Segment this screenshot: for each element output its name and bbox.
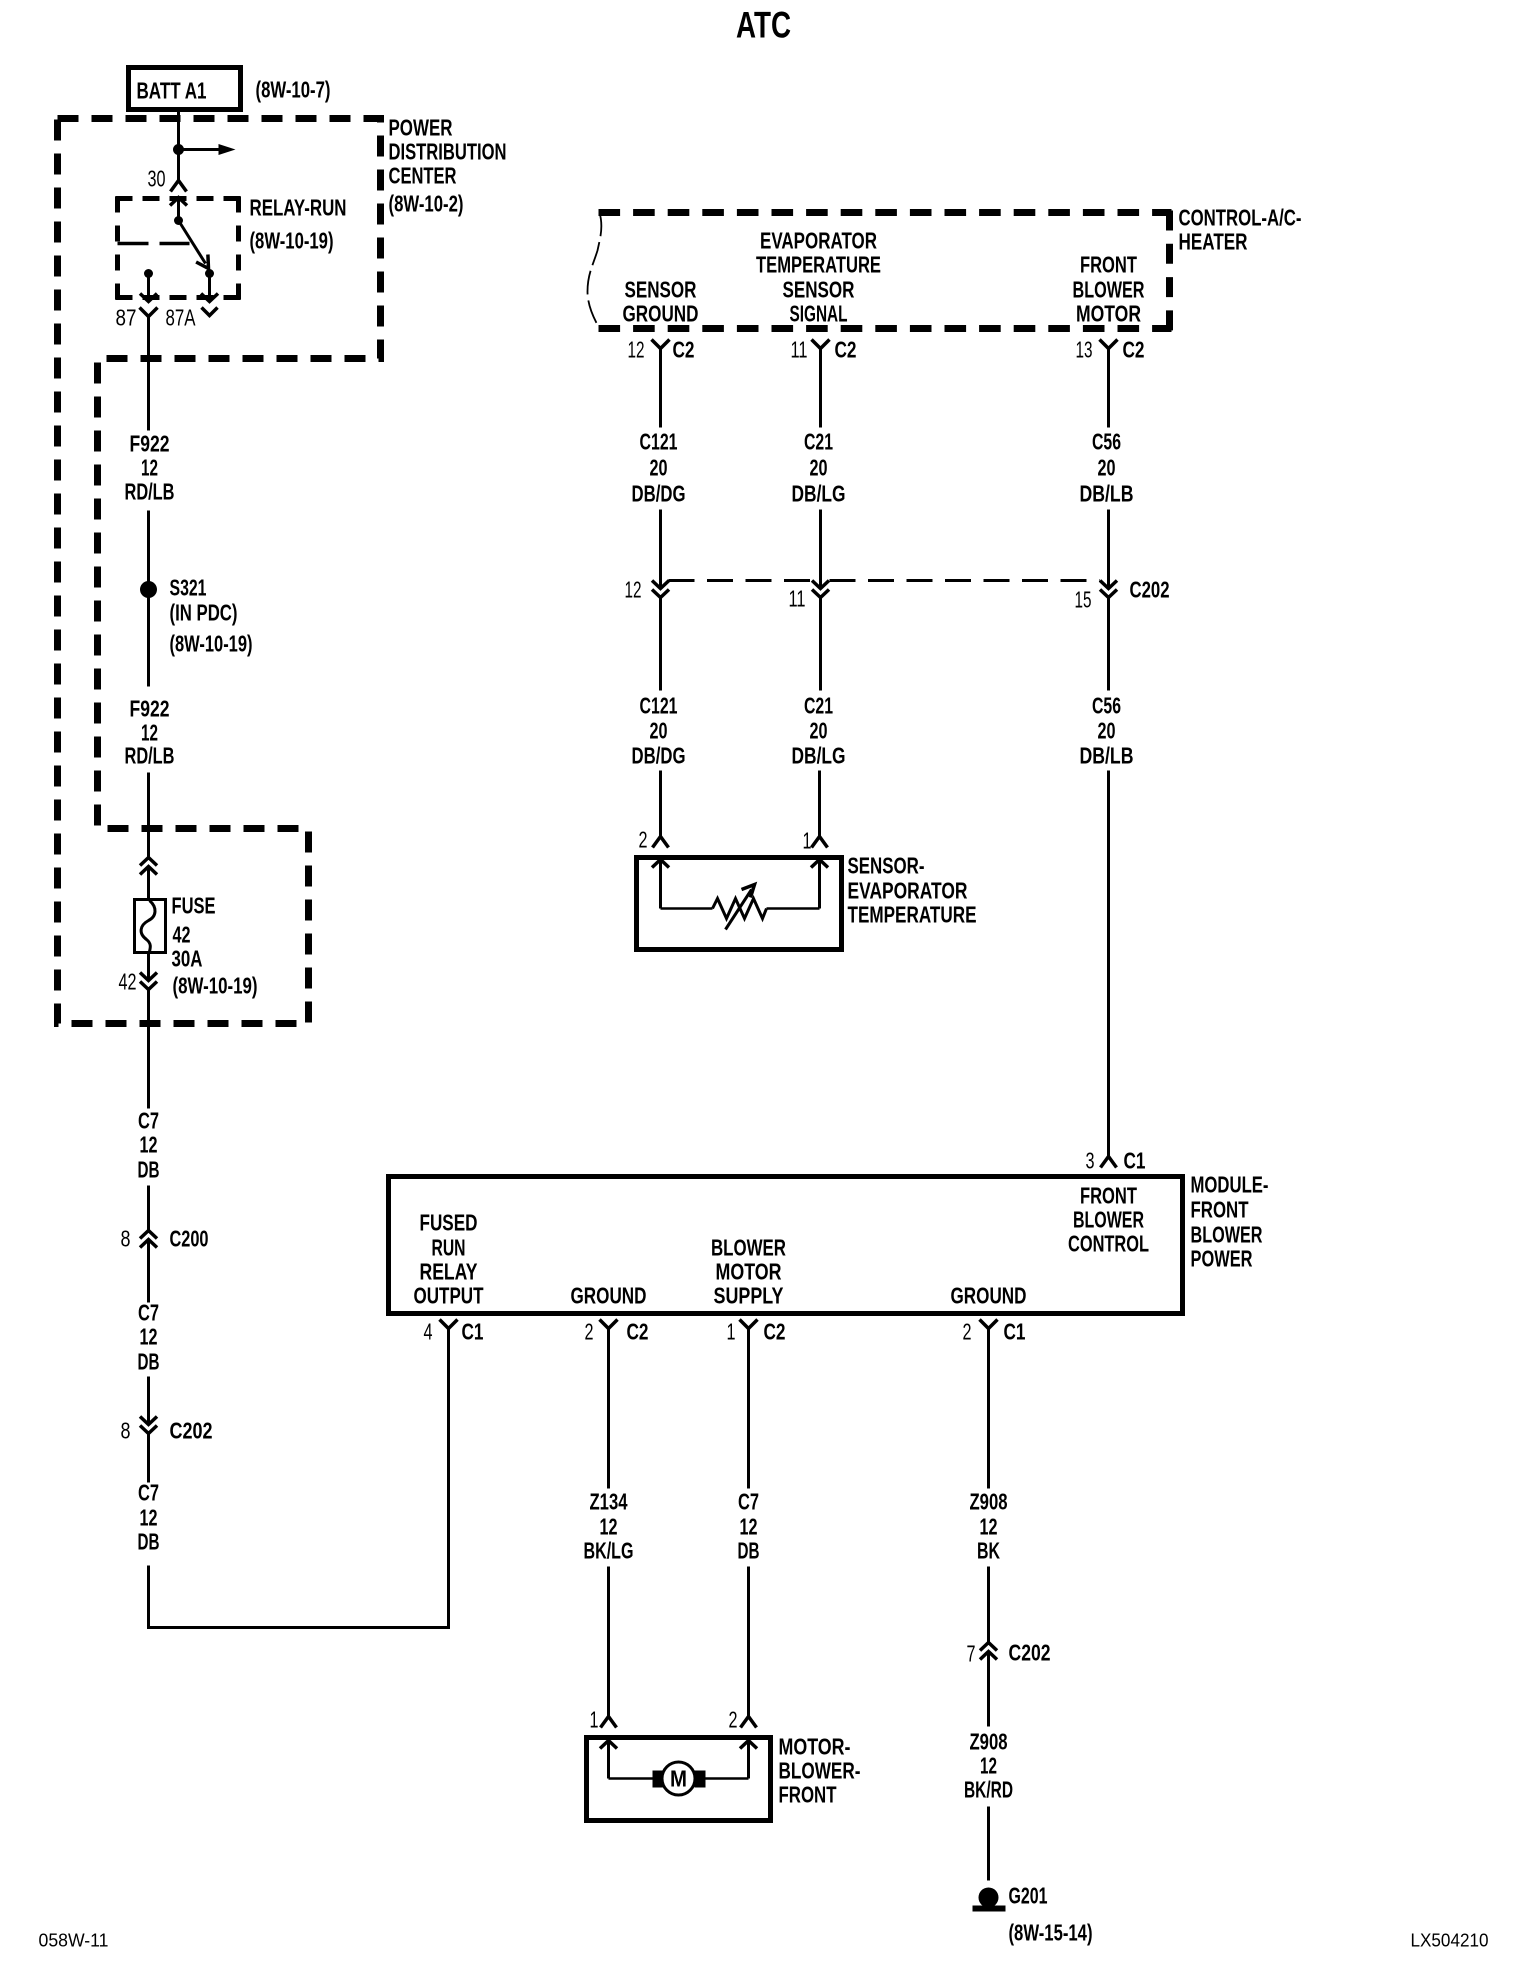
label SENSOR-EVAPORATOR TEMPERATURE: [848, 853, 977, 928]
svg-text:RD/LB: RD/LB: [125, 479, 175, 505]
label RELAY-RUN (8W-10-19): [250, 195, 347, 254]
relay RELAY-RUN: [116, 197, 241, 300]
svg-text:(8W-10-7): (8W-10-7): [256, 77, 331, 103]
svg-text:BK: BK: [977, 1538, 1000, 1564]
svg-text:DISTRIBUTION: DISTRIBUTION: [389, 139, 507, 165]
svg-text:C121: C121: [640, 429, 678, 455]
svg-text:SENSOR: SENSOR: [625, 277, 697, 303]
connector C200 pin 8: [121, 1226, 209, 1252]
svg-text:POWER: POWER: [1191, 1246, 1253, 1272]
svg-text:C1: C1: [1004, 1319, 1026, 1345]
connector C202 pin 11: [789, 581, 830, 612]
motor-blower-front M1: [587, 1738, 771, 1821]
sensor pin 2: [639, 827, 669, 853]
wire from fuse: [147, 953, 150, 981]
svg-text:C1: C1: [462, 1319, 484, 1345]
svg-text:S321: S321: [170, 575, 207, 601]
connector C202 pin 15: [1075, 577, 1170, 613]
module pin 1 C2: [727, 1319, 786, 1345]
svg-text:C1: C1: [1124, 1148, 1146, 1174]
svg-text:EVAPORATOR: EVAPORATOR: [848, 878, 968, 904]
svg-text:1: 1: [590, 1707, 599, 1733]
svg-text:30: 30: [148, 166, 166, 192]
wire C7 12 DB to motor: [738, 1339, 760, 1713]
relay movable arm to 87A: [179, 221, 209, 269]
motor pin 2: [729, 1707, 757, 1733]
svg-text:C202: C202: [1130, 577, 1170, 603]
svg-text:15: 15: [1075, 587, 1092, 613]
svg-text:11: 11: [789, 586, 806, 612]
svg-text:Z908: Z908: [970, 1489, 1008, 1515]
svg-text:20: 20: [810, 455, 828, 481]
wire F922 12 RD/LB upper segment: [125, 327, 175, 505]
svg-text:DB: DB: [138, 1157, 160, 1183]
svg-text:12: 12: [740, 1514, 758, 1540]
svg-text:C2: C2: [627, 1319, 649, 1345]
fuse FUSE 42 30A: [135, 893, 258, 999]
svg-text:87: 87: [116, 305, 137, 331]
svg-text:DB: DB: [138, 1349, 160, 1375]
svg-text:058W-11: 058W-11: [39, 1931, 109, 1951]
svg-text:CENTER: CENTER: [389, 163, 457, 189]
relay pin 30 input arrow: [177, 198, 180, 221]
svg-text:20: 20: [650, 455, 668, 481]
svg-text:(8W-10-19): (8W-10-19): [250, 228, 334, 254]
svg-text:1: 1: [727, 1319, 736, 1345]
label MODULE-FRONT BLOWER POWER: [1191, 1172, 1269, 1272]
svg-text:11: 11: [791, 337, 808, 363]
svg-text:RELAY: RELAY: [420, 1259, 478, 1285]
svg-text:12: 12: [141, 455, 158, 481]
svg-text:C7: C7: [138, 1480, 159, 1506]
connector C202 pin 8: [121, 1417, 213, 1444]
svg-text:12: 12: [140, 1132, 158, 1158]
svg-text:20: 20: [1098, 455, 1116, 481]
wire Z908 12 BK/RD: [964, 1652, 1013, 1881]
svg-text:20: 20: [1098, 718, 1116, 744]
wire C56 20 DB/LB segment 2: [1080, 599, 1134, 1153]
svg-text:OUTPUT: OUTPUT: [414, 1283, 484, 1309]
svg-text:EVAPORATOR: EVAPORATOR: [760, 228, 877, 254]
svg-text:30A: 30A: [172, 946, 203, 972]
svg-text:F922: F922: [130, 696, 170, 722]
svg-text:SENSOR-: SENSOR-: [848, 853, 925, 879]
svg-text:12: 12: [625, 577, 642, 603]
label POWER DISTRIBUTION CENTER (8W-10-2): [389, 115, 507, 217]
pin 30: [148, 166, 187, 192]
svg-text:20: 20: [650, 718, 668, 744]
svg-text:RUN: RUN: [432, 1235, 466, 1261]
svg-text:ATC: ATC: [736, 5, 791, 46]
svg-text:12: 12: [980, 1753, 997, 1779]
svg-text:SIGNAL: SIGNAL: [790, 301, 848, 327]
svg-text:DB/DG: DB/DG: [632, 481, 686, 507]
svg-text:C2: C2: [764, 1319, 786, 1345]
module pin 4 C1: [424, 1319, 484, 1345]
svg-text:SUPPLY: SUPPLY: [714, 1283, 784, 1309]
svg-text:2: 2: [729, 1707, 738, 1733]
svg-text:Z134: Z134: [590, 1489, 628, 1515]
wire C21 20 DB/LG segment 2: [792, 599, 846, 833]
svg-text:BLOWER: BLOWER: [1073, 277, 1145, 303]
svg-text:7: 7: [967, 1641, 976, 1667]
svg-text:DB/LB: DB/LB: [1080, 743, 1134, 769]
relay output arrow 87A: [208, 274, 211, 302]
wire C21 20 DB/LG segment 1: [792, 359, 846, 588]
svg-text:12: 12: [600, 1514, 618, 1540]
arrow feed to other circuits: [179, 144, 236, 155]
label FUSED RUN RELAY OUTPUT: [414, 1210, 484, 1309]
sensor pin 1: [803, 828, 828, 854]
wire C56 20 DB/LB segment 1: [1080, 359, 1134, 588]
pin 87: [116, 305, 158, 331]
svg-text:C2: C2: [673, 337, 695, 363]
wire Z134 12 BK/LG: [584, 1339, 634, 1713]
svg-text:M: M: [670, 1766, 687, 1792]
svg-text:(8W-10-19): (8W-10-19): [170, 631, 253, 657]
svg-text:RELAY-RUN: RELAY-RUN: [250, 195, 347, 221]
wire C7 12 DB segment 2: [138, 1240, 160, 1425]
svg-text:1: 1: [803, 828, 812, 854]
svg-text:MODULE-: MODULE-: [1191, 1172, 1269, 1198]
svg-text:C121: C121: [640, 693, 678, 719]
svg-text:C7: C7: [138, 1300, 159, 1326]
svg-text:2: 2: [639, 827, 648, 853]
svg-text:42: 42: [119, 969, 137, 995]
svg-text:CONTROL: CONTROL: [1068, 1231, 1149, 1257]
svg-text:LX504210: LX504210: [1411, 1931, 1489, 1951]
svg-text:DB: DB: [738, 1538, 760, 1564]
svg-text:Z908: Z908: [970, 1729, 1008, 1755]
svg-text:SENSOR: SENSOR: [783, 277, 855, 303]
battery feed BATT A1: [129, 68, 241, 110]
svg-text:FRONT: FRONT: [779, 1782, 837, 1808]
control-A/C-heater enclosure: [588, 211, 1172, 331]
svg-text:CONTROL-A/C-: CONTROL-A/C-: [1179, 205, 1302, 231]
svg-text:BLOWER: BLOWER: [1073, 1207, 1144, 1233]
svg-text:2: 2: [585, 1319, 594, 1345]
svg-text:(8W-10-19): (8W-10-19): [173, 973, 258, 999]
svg-text:12: 12: [628, 337, 645, 363]
sensor-evaporator temperature R1: [637, 858, 842, 950]
module pin 3 C1: [1086, 1148, 1146, 1174]
wire C121 20 DB/DG segment 1: [632, 359, 686, 588]
svg-text:2: 2: [963, 1319, 972, 1345]
svg-text:DB/LB: DB/LB: [1080, 481, 1134, 507]
svg-text:MOTOR: MOTOR: [1076, 301, 1141, 327]
svg-text:(8W-10-2): (8W-10-2): [389, 191, 464, 217]
svg-text:12: 12: [140, 1324, 158, 1350]
svg-text:BLOWER-: BLOWER-: [779, 1758, 861, 1784]
svg-text:FRONT: FRONT: [1080, 252, 1137, 278]
label EVAPORATOR TEMPERATURE SENSOR SIGNAL: [756, 228, 881, 327]
svg-text:GROUND: GROUND: [951, 1283, 1027, 1309]
svg-text:BLOWER: BLOWER: [711, 1235, 786, 1261]
label FRONT BLOWER MOTOR: [1073, 252, 1145, 327]
module front blower power U1: [389, 1177, 1183, 1314]
svg-text:DB/DG: DB/DG: [632, 743, 686, 769]
pin 12 C2: [628, 337, 695, 363]
svg-text:C2: C2: [835, 337, 857, 363]
svg-text:(8W-15-14): (8W-15-14): [1009, 1920, 1093, 1946]
label MOTOR-BLOWER-FRONT: [779, 1734, 861, 1808]
splice S321: [140, 511, 253, 687]
relay contact dot 87: [144, 269, 153, 278]
junction dot: [173, 144, 184, 155]
svg-text:C56: C56: [1092, 429, 1121, 455]
wire F922 12 RD/LB lower segment: [125, 696, 175, 858]
svg-text:MOTOR-: MOTOR-: [779, 1734, 851, 1760]
wire C7 12 DB segment 1: [138, 990, 160, 1231]
svg-text:(IN PDC): (IN PDC): [170, 600, 238, 626]
svg-text:13: 13: [1076, 337, 1093, 363]
power distribution center enclosure: [58, 119, 381, 1024]
module pin 2 C1: [963, 1319, 1026, 1345]
svg-text:RD/LB: RD/LB: [125, 743, 175, 769]
svg-text:HEATER: HEATER: [1179, 229, 1248, 255]
svg-text:8: 8: [121, 1418, 131, 1444]
svg-text:POWER: POWER: [389, 115, 453, 141]
fuse input connector: [140, 858, 157, 866]
svg-text:C202: C202: [170, 1418, 213, 1444]
svg-text:FUSE: FUSE: [172, 893, 216, 919]
svg-text:C21: C21: [804, 693, 833, 719]
svg-text:F922: F922: [130, 431, 170, 457]
svg-text:12: 12: [140, 1505, 158, 1531]
relay output arrow 87: [147, 274, 150, 302]
svg-text:BATT A1: BATT A1: [137, 78, 207, 104]
svg-text:87A: 87A: [166, 305, 196, 331]
label BLOWER MOTOR SUPPLY: [711, 1235, 786, 1309]
svg-text:C21: C21: [804, 429, 833, 455]
motor pin 1: [590, 1707, 617, 1733]
svg-text:GROUND: GROUND: [571, 1283, 647, 1309]
wire C121 20 DB/DG segment 2: [632, 599, 686, 833]
svg-text:8: 8: [121, 1226, 131, 1252]
svg-text:C7: C7: [738, 1489, 759, 1515]
svg-text:FRONT: FRONT: [1080, 1183, 1137, 1209]
svg-text:3: 3: [1086, 1148, 1095, 1174]
module pin 2 C2: [585, 1319, 649, 1345]
pin 42 connector: [119, 969, 158, 995]
wire BATT A1 to relay pin 30: [177, 110, 180, 177]
svg-text:20: 20: [810, 718, 828, 744]
svg-text:BK/LG: BK/LG: [584, 1538, 634, 1564]
svg-text:4: 4: [424, 1319, 433, 1345]
svg-text:TEMPERATURE: TEMPERATURE: [848, 902, 977, 928]
svg-text:BLOWER: BLOWER: [1191, 1222, 1263, 1248]
label SENSOR GROUND: [623, 277, 699, 327]
pin 87A: [166, 305, 218, 331]
connector C202 pin 7: [967, 1640, 1051, 1667]
label FRONT BLOWER CONTROL: [1068, 1183, 1149, 1257]
svg-text:G201: G201: [1009, 1883, 1048, 1909]
svg-text:C202: C202: [1009, 1640, 1051, 1666]
svg-text:BK/RD: BK/RD: [964, 1777, 1013, 1803]
ground G201: [973, 1883, 1093, 1946]
connector C202 dashed line: [669, 579, 1100, 582]
svg-text:FUSED: FUSED: [420, 1210, 478, 1236]
svg-text:12: 12: [980, 1514, 998, 1540]
svg-text:42: 42: [173, 922, 191, 948]
label CONTROL-A/C-HEATER: [1179, 205, 1302, 255]
pin 11 C2: [791, 337, 857, 363]
svg-text:DB: DB: [138, 1529, 160, 1555]
pin 13 C2: [1076, 337, 1145, 363]
svg-text:C2: C2: [1123, 337, 1145, 363]
svg-text:FRONT: FRONT: [1191, 1197, 1249, 1223]
svg-text:DB/LG: DB/LG: [792, 481, 846, 507]
svg-text:C56: C56: [1092, 693, 1121, 719]
svg-text:C7: C7: [138, 1108, 159, 1134]
svg-text:C200: C200: [170, 1226, 209, 1252]
svg-text:MOTOR: MOTOR: [716, 1259, 782, 1285]
svg-text:TEMPERATURE: TEMPERATURE: [756, 252, 881, 278]
relay fixed contact dashed: [118, 242, 190, 246]
wire into fuse: [147, 867, 150, 901]
wire C7 12 DB segment 3 to module pin 4: [138, 1339, 449, 1628]
svg-text:GROUND: GROUND: [623, 301, 699, 327]
relay contact dot 87A: [205, 269, 214, 278]
svg-text:DB/LG: DB/LG: [792, 743, 846, 769]
relay armature pivot dot: [174, 216, 183, 225]
wire Z908 12 BK: [970, 1339, 1008, 1643]
connector C202 pin 12: [625, 577, 670, 603]
